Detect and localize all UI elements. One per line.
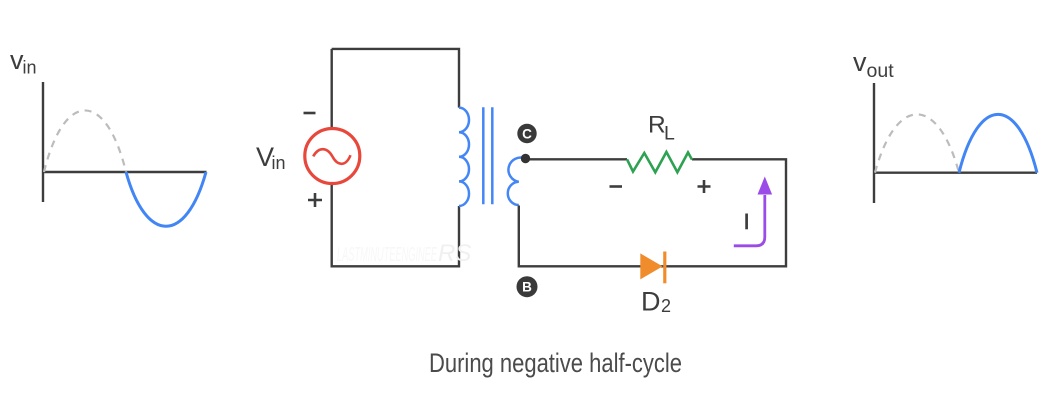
svg-text:out: out (867, 60, 895, 82)
svg-text:v: v (853, 47, 867, 77)
svg-text:D: D (641, 287, 661, 317)
svg-text:RS: RS (438, 240, 471, 267)
svg-text:B: B (522, 280, 532, 295)
svg-text:in: in (23, 58, 37, 78)
svg-text:C: C (522, 126, 532, 141)
svg-text:LASTMINUTEENGINEE: LASTMINUTEENGINEE (337, 244, 437, 266)
svg-text:L: L (664, 122, 675, 144)
svg-text:in: in (272, 153, 286, 173)
svg-text:2: 2 (661, 296, 671, 316)
svg-text:During negative half-cycle: During negative half-cycle (429, 348, 682, 378)
